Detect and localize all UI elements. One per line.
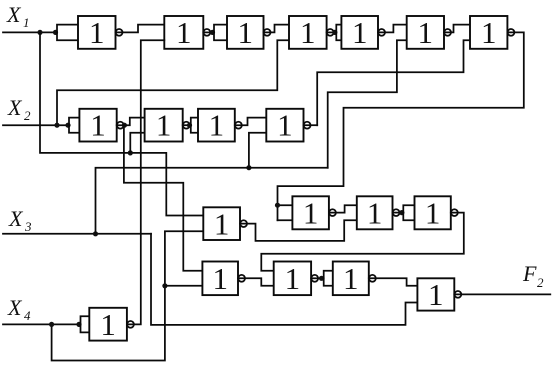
pin bubble G3 output <box>264 29 271 36</box>
svg-text:X: X <box>8 206 24 231</box>
svg-text:1: 1 <box>481 15 497 50</box>
gate G5 (NOT) <box>341 16 378 49</box>
svg-text:1: 1 <box>300 15 316 50</box>
wire U8 out branch down to U16 upper input <box>124 125 202 271</box>
pin bubble U12 output <box>329 209 336 216</box>
node X2 branch junction <box>54 123 59 128</box>
gate U20 (NOT) <box>89 308 127 341</box>
node X1 to U9 junction <box>128 150 133 155</box>
gate U16 (NOR) <box>202 262 238 296</box>
gate U14 (NOT) <box>415 196 451 229</box>
gate G1 (NOT, IEC "1") <box>78 16 116 49</box>
wire X4 branch loop to U15 lower input <box>52 231 204 360</box>
svg-text:1: 1 <box>352 15 368 50</box>
wire U9 out to bracket <box>183 124 191 126</box>
wire tied-input bracket of U14 <box>403 205 414 220</box>
svg-text:1: 1 <box>237 15 253 50</box>
node U17 bracket junction <box>319 276 324 281</box>
svg-text:4: 4 <box>24 308 31 323</box>
input label X2 <box>7 95 31 123</box>
pin bubble U16 output <box>238 275 245 282</box>
gate U11 (NOR) <box>266 109 303 142</box>
node X4 branch junction <box>49 322 54 327</box>
node G4 bracket junction <box>332 30 337 35</box>
node X3 branch junction <box>93 231 98 236</box>
input wire X3 <box>3 233 151 235</box>
wire tied-input bracket of U10 <box>191 118 198 133</box>
svg-text:1: 1 <box>100 307 116 342</box>
wire tied-input bracket of G5 <box>336 25 341 41</box>
gate U12 (NOT) <box>292 196 329 229</box>
node U13 bracket junction <box>399 210 404 215</box>
wire U16 out to U17 lower input <box>238 278 274 286</box>
node X2 bracket junction <box>65 123 70 128</box>
node X3 to U11 junction <box>246 165 251 170</box>
output label F2 <box>522 261 544 290</box>
svg-text:1: 1 <box>418 15 434 50</box>
wire U11 out stub <box>304 124 318 126</box>
svg-text:X: X <box>6 2 22 27</box>
svg-text:X: X <box>7 295 23 320</box>
wire G7 feedback bracket into U12 (tied inputs) <box>278 205 293 220</box>
svg-text:1: 1 <box>303 195 319 230</box>
wire X1 branch to U9 lower input <box>40 32 203 215</box>
pin bubble U11 output <box>304 122 311 129</box>
pin bubble U13 output <box>393 209 400 216</box>
node U8 output junction <box>122 123 127 128</box>
wire X3 main down and right to U19 lower input <box>151 234 417 325</box>
wire U9 lower input riser <box>130 133 144 153</box>
gate U9 (NOR) <box>145 109 183 142</box>
svg-text:1: 1 <box>425 195 441 230</box>
node X1 bracket junction <box>53 30 58 35</box>
wire X2 net riser to G4 lower input <box>57 40 289 125</box>
pin bubble G7 output <box>508 29 515 36</box>
wire U14 out loop to U17 upper input <box>261 213 464 271</box>
svg-text:1: 1 <box>343 261 359 296</box>
pin bubble U19 output <box>455 291 462 298</box>
svg-text:X: X <box>7 95 23 120</box>
wire X3 net riser to G6 lower input <box>328 40 407 168</box>
input label X3 <box>8 206 32 234</box>
pin bubble G5 output <box>378 29 385 36</box>
gate U17 (NOR) <box>274 262 311 296</box>
gate G4 (NOR) <box>289 16 327 49</box>
pin bubble G4 output <box>327 29 334 36</box>
node X4 bracket junction <box>76 322 81 327</box>
wire X3 riser to long X3 net <box>96 168 328 234</box>
wire tied-input bracket of U20 <box>81 316 90 332</box>
wire G6 out to G7 upper input <box>444 25 470 33</box>
node G2 bracket junction <box>210 30 215 35</box>
wire tied-input bracket of U18 <box>324 271 333 286</box>
wire X3 net tap to U11 lower input <box>249 133 266 168</box>
wire U20 out up to G2 lower input <box>127 40 164 324</box>
gate G2 (NOR) <box>164 16 203 49</box>
gate U15 (NOR) <box>203 207 240 240</box>
node X1 branch junction <box>37 30 42 35</box>
pin bubble U14 output <box>451 209 458 216</box>
svg-text:1: 1 <box>428 277 444 312</box>
input label X4 <box>7 295 31 323</box>
wire U11 out riser to G7 lower input <box>317 40 470 125</box>
svg-text:3: 3 <box>24 219 32 234</box>
wire U15 out to U13 lower input <box>240 220 357 241</box>
gate G7 (NOR) <box>470 16 507 49</box>
wire U16 lower input tap <box>165 285 203 287</box>
wire U13 out to bracket <box>393 212 404 214</box>
svg-text:1: 1 <box>156 108 172 143</box>
pin bubble G2 output <box>204 29 211 36</box>
node U12 bracket junction <box>275 203 280 208</box>
svg-text:2: 2 <box>24 108 31 123</box>
wire U8 out to U9 upper input <box>117 118 145 126</box>
gate U8 (NOT) <box>79 109 116 142</box>
pin bubble G6 output <box>444 29 451 36</box>
wire tied-input bracket of G1 <box>57 25 78 41</box>
gate U10 (NOT) <box>198 109 235 142</box>
svg-text:1: 1 <box>209 108 225 143</box>
svg-text:1: 1 <box>90 108 106 143</box>
pin bubble U15 output <box>240 220 247 227</box>
wire G1 out to G2 upper input <box>116 25 165 33</box>
gate U18 (NOT) <box>333 262 369 296</box>
wire G2 out to bracket <box>203 31 214 33</box>
wire G3 out to G4 upper input <box>264 25 290 33</box>
node X4 to U16 junction <box>162 283 167 288</box>
input wire X2 <box>3 124 69 126</box>
pin bubble U17 output <box>311 275 318 282</box>
wire U10 out to U11 upper input <box>235 118 266 126</box>
svg-text:1: 1 <box>214 206 230 241</box>
svg-text:1: 1 <box>89 15 105 50</box>
wire tied-input bracket of G3 <box>214 25 227 41</box>
pin bubble U18 output <box>369 275 376 282</box>
output wire F2 <box>454 293 550 295</box>
svg-text:F: F <box>522 261 537 286</box>
input wire X4 <box>3 323 81 325</box>
gate G3 (NOT) <box>227 16 264 49</box>
pin bubble U10 output <box>235 122 242 129</box>
wire G4 out to bracket <box>327 31 337 33</box>
input label X1 <box>6 2 30 30</box>
wire G7 out feedback down to U12 input <box>278 32 524 220</box>
gate U19 (NOR) <box>417 278 454 310</box>
pin bubble U20 output <box>127 321 134 328</box>
wire U18 out to U19 upper input <box>369 278 418 285</box>
svg-text:1: 1 <box>23 15 30 30</box>
pin bubble U9 output <box>183 122 190 129</box>
svg-text:1: 1 <box>277 108 293 143</box>
svg-text:1: 1 <box>367 195 383 230</box>
svg-text:1: 1 <box>285 261 301 296</box>
node U9 bracket junction <box>187 123 192 128</box>
svg-text:2: 2 <box>537 275 544 290</box>
wire tied-input bracket of U8 <box>69 118 79 133</box>
gate U13 (NOR) <box>357 196 393 229</box>
pin bubble U8 output <box>117 122 124 129</box>
wire U17 out to bracket <box>311 277 324 279</box>
gate G6 (NOR) <box>407 16 444 49</box>
input wire X1 <box>3 31 57 33</box>
svg-text:1: 1 <box>212 261 228 296</box>
svg-text:1: 1 <box>176 15 192 50</box>
pin bubble G1 output <box>116 29 123 36</box>
wire U12 out to U13 upper input <box>329 205 357 212</box>
wire G5 out to G6 upper input <box>378 25 407 33</box>
